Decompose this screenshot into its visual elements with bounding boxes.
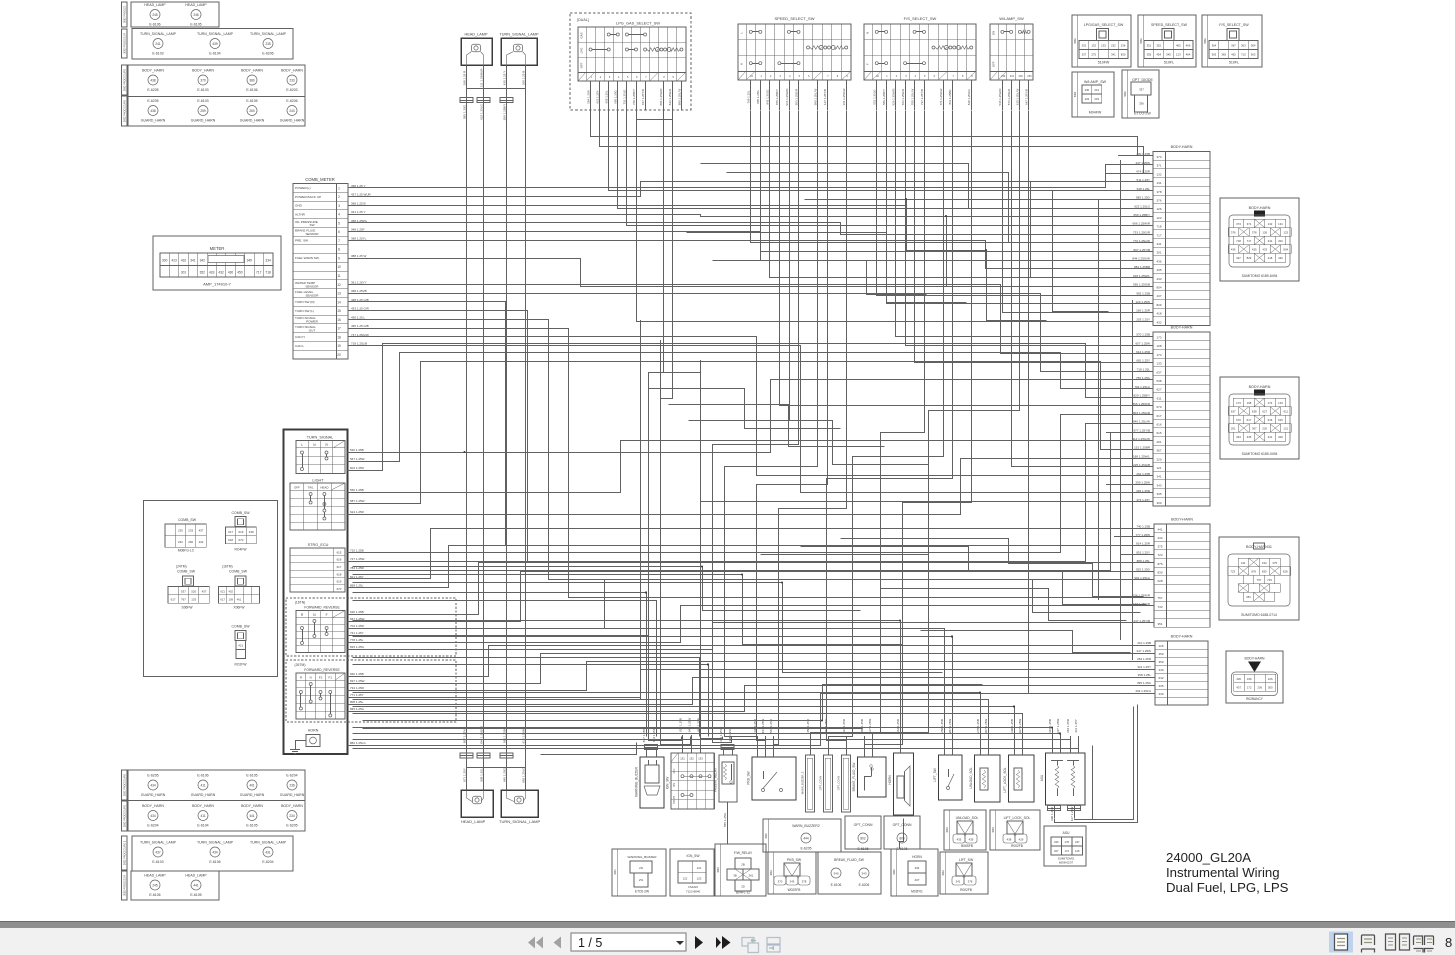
svg-text:658 1.25L: 658 1.25L: [605, 90, 609, 103]
wire ASU bottom stubs: [1054, 805, 1056, 818]
svg-text:378: 378: [802, 879, 807, 883]
wire COMB_METER pin17 to T3 row9: [349, 329, 1155, 598]
page layout icon 2 : continuous: [1362, 935, 1375, 953]
connector detail box METER (AMP_174910-7): [153, 236, 281, 290]
svg-text:437: 437: [915, 878, 920, 882]
svg-text:BODY-HARN: BODY-HARN: [1171, 326, 1193, 330]
svg-text:E-6205: E-6205: [286, 824, 297, 828]
wire stair t3 2: [801, 547, 1147, 605]
svg-text:E-6205: E-6205: [147, 99, 158, 103]
svg-text:CAN H: CAN H: [295, 335, 305, 339]
svg-text:510FL: 510FL: [1164, 61, 1174, 65]
ground symbol COMB_SW: [290, 749, 300, 751]
svg-text:ALTNR: ALTNR: [295, 212, 306, 216]
svg-text:696 1.25W/R: 696 1.25W/R: [1132, 222, 1150, 226]
wire LPG col to T1 row7: [618, 111, 1154, 209]
svg-text:W/LAMP_SW: W/LAMP_SW: [1084, 80, 1107, 84]
svg-text:(24TM): (24TM): [176, 565, 187, 569]
svg-text:433 1.25 G/R: 433 1.25 G/R: [351, 307, 370, 311]
svg-text:230: 230: [1001, 75, 1006, 78]
svg-text:B04FL-12: B04FL-12: [736, 891, 750, 895]
svg-text:132: 132: [1091, 44, 1096, 48]
svg-text:E-6106: E-6106: [831, 883, 842, 887]
wire 16TN row5 to T3: [348, 606, 1155, 643]
svg-text:TURN_SIGNAL_LAMP: TURN_SIGNAL_LAMP: [250, 841, 287, 845]
svg-text:343: 343: [1156, 483, 1161, 487]
svg-text:437: 437: [155, 850, 161, 854]
svg-text:433: 433: [209, 271, 215, 275]
wire COMB_METER pin12 to T2 row3: [349, 285, 1154, 354]
svg-text:HEAD_LAMP: HEAD_LAMP: [185, 874, 207, 878]
svg-text:233: 233: [1027, 75, 1032, 78]
svg-text:663 1.25G/R: 663 1.25G/R: [901, 89, 905, 105]
wire lamp vertical 1: [466, 65, 468, 790]
wire SPEED_SELECT_SW pin 5: [789, 80, 791, 110]
connector box TURN_SIGNAL_LAMP row (top-left): [132, 29, 293, 60]
wire 26TM row1 to T4: [348, 646, 1156, 677]
svg-text:174: 174: [1156, 353, 1161, 357]
svg-text:BODY_HARN: BODY_HARN: [192, 804, 214, 808]
detail box ASU (SUMITOMO): [1044, 826, 1086, 866]
svg-text:367: 367: [1252, 427, 1257, 431]
svg-text:955 1.25G/B: 955 1.25G/B: [1133, 283, 1150, 287]
svg-text:622 1.25LG: 622 1.25LG: [479, 103, 483, 119]
wire 16TN row1 to T3: [348, 563, 1155, 615]
svg-text:2%: 2%: [639, 878, 644, 882]
svg-text:234: 234: [289, 814, 295, 818]
wire bus y727.5 to bottom component x1052: [353, 728, 1053, 737]
svg-text:3082 PROCED: 3082 PROCED: [124, 6, 127, 23]
svg-text:624 1.25R: 624 1.25R: [350, 510, 365, 514]
svg-text:BODY-HARN: BODY-HARN: [1249, 206, 1271, 210]
wire PASS/W_RELAY pins: [723, 749, 725, 755]
svg-text:435: 435: [1156, 268, 1161, 272]
connector grid box BODY-HARN C3 (SUMITOMO 6188-0714): [1219, 537, 1299, 620]
detail box IGN_SW (bottom row): [670, 849, 714, 896]
svg-text:BREAK_FLUID_SW: BREAK_FLUID_SW: [834, 858, 865, 862]
svg-text:464: 464: [1186, 53, 1191, 57]
svg-text:376: 376: [1231, 230, 1236, 234]
svg-text:617: 617: [1247, 418, 1252, 422]
svg-text:E-6103: E-6103: [152, 860, 163, 864]
wire W/LAMP_SW pin 4: [1028, 80, 1030, 110]
svg-text:300: 300: [1278, 435, 1283, 439]
tab strip top-left 1: [122, 2, 128, 27]
wire lamp vertical 2: [483, 65, 485, 790]
svg-text:300: 300: [1156, 501, 1161, 505]
svg-text:5082: 5082: [1124, 91, 1127, 97]
svg-text:555 1.25G: 555 1.25G: [723, 812, 727, 827]
wire SPEED_SELECT_SW pin 3: [769, 80, 771, 110]
svg-text:3082 PROCEDURE: 3082 PROCEDURE: [124, 100, 127, 123]
svg-text:567 1.25W: 567 1.25W: [350, 457, 365, 461]
svg-text:126: 126: [1262, 230, 1267, 234]
svg-text:418: 418: [1268, 256, 1273, 260]
svg-text:E-6205: E-6205: [147, 774, 158, 778]
svg-text:517 1.25W: 517 1.25W: [868, 719, 872, 734]
svg-text:510FL: 510FL: [1229, 61, 1239, 65]
wire stair lower 4: [363, 685, 983, 721]
svg-text:433: 433: [1156, 277, 1161, 281]
svg-text:YAZAKI: YAZAKI: [688, 885, 699, 889]
wire COMB_METER pin16 to T3 row7: [349, 320, 1155, 580]
svg-text:126: 126: [1156, 207, 1161, 211]
svg-text:454: 454: [1156, 53, 1161, 57]
svg-text:UNLOAD_SOL: UNLOAD_SOL: [969, 767, 973, 789]
wire 26TM row3 to T4: [348, 662, 1156, 691]
svg-text:337: 337: [1139, 88, 1144, 92]
svg-text:BODY-HARN31: BODY-HARN31: [1246, 545, 1272, 549]
svg-text:733: 733: [1267, 578, 1272, 582]
svg-text:660 1.25B: 660 1.25B: [350, 672, 364, 676]
svg-text:COMB_METER: COMB_METER: [305, 177, 335, 182]
svg-text:172: 172: [1064, 849, 1069, 853]
svg-text:ASU: ASU: [1063, 831, 1071, 835]
wire SPEED col4 to T2 row9: [780, 111, 1154, 406]
detail box BREAK_FLUID_SW: [818, 852, 881, 894]
pdf viewer toolbar: [0, 928, 1455, 955]
wire COMB_METER pin1 to BODY-HARN T1 row2: [349, 165, 1154, 188]
svg-text:10: 10: [337, 265, 341, 269]
connector grid box BODY-HARN C1 (SUMITOMO 6189-6494): [1220, 198, 1299, 281]
svg-text:8: 8: [338, 248, 340, 252]
svg-text:F/W_RELAY: F/W_RELAY: [734, 851, 753, 855]
wire 26TM row6 to T4: [348, 686, 1156, 712]
svg-text:(26TM): (26TM): [295, 663, 306, 667]
svg-text:432: 432: [218, 271, 224, 275]
svg-text:732 1.25LG: 732 1.25LG: [623, 89, 627, 105]
svg-text:245: 245: [152, 883, 158, 887]
svg-text:723: 723: [1230, 569, 1235, 573]
svg-text:430: 430: [1236, 677, 1241, 681]
svg-text:COMB_SW: COMB_SW: [177, 570, 196, 574]
wire LPG col6-col9 jog: [637, 111, 673, 120]
wire 16TN row3 to T3: [348, 580, 1155, 629]
svg-text:E-6106: E-6106: [209, 860, 220, 864]
svg-text:6: 6: [338, 230, 340, 234]
svg-text:804: 804: [1156, 286, 1161, 290]
svg-text:GUARD_HARN: GUARD_HARN: [280, 119, 305, 123]
svg-text:3083: 3083: [770, 870, 773, 876]
svg-text:3082 PROCEDURE: 3082 PROCEDURE: [124, 69, 127, 92]
svg-text:E-6205: E-6205: [147, 88, 158, 92]
svg-text:HEAD_LAMP: HEAD_LAMP: [185, 3, 207, 7]
svg-text:133: 133: [698, 757, 703, 761]
wire W/LAMP_SW pin 2: [1011, 80, 1013, 110]
component narrow connector OPT_CONN 2: [824, 755, 833, 812]
svg-text:F/S_SELECT_SW: F/S_SELECT_SW: [1219, 23, 1249, 27]
page number input box: [571, 933, 686, 951]
svg-text:373: 373: [1156, 155, 1161, 159]
svg-text:Dual Fuel, LPG, LPS: Dual Fuel, LPG, LPS: [1166, 880, 1289, 895]
svg-text:585 1.25G: 585 1.25G: [462, 104, 466, 119]
svg-text:398 1.25 R: 398 1.25 R: [462, 70, 466, 86]
svg-text:123: 123: [1156, 216, 1161, 220]
svg-text:COMB_SW: COMB_SW: [231, 625, 250, 629]
svg-text:982 1.25LG: 982 1.25LG: [521, 766, 525, 782]
svg-text:299 1.25W: 299 1.25W: [1135, 480, 1150, 484]
wire COMB_METER pin14 to T3 row3: [349, 302, 1155, 546]
svg-text:CAN L: CAN L: [295, 344, 304, 348]
svg-text:375: 375: [1272, 561, 1277, 565]
wire UNLOAD_SOL pins: [980, 736, 982, 755]
wire LPG_GAS_SELECT_SW pin 7: [663, 81, 665, 110]
svg-text:TURN_SIGNAL_LAMP: TURN_SIGNAL_LAMP: [140, 841, 177, 845]
svg-text:SPEED_SELECT_SW: SPEED_SELECT_SW: [1151, 23, 1188, 27]
nav next-page button: [695, 936, 703, 949]
svg-text:123: 123: [1176, 53, 1181, 57]
svg-text:3083: 3083: [946, 827, 949, 833]
wire F/S_SELECT_SW pin 3: [895, 80, 897, 110]
svg-text:E-6104: E-6104: [197, 824, 208, 828]
svg-text:341: 341: [1268, 239, 1273, 243]
tab strip bottom-left 3: [122, 836, 128, 870]
wire stair t3 5: [921, 631, 1131, 653]
window icon 1 (disabled): [742, 938, 759, 953]
svg-text:734 1.25R: 734 1.25R: [350, 686, 365, 690]
svg-text:908 1.25L: 908 1.25L: [479, 768, 483, 782]
svg-text:804: 804: [1283, 248, 1288, 252]
svg-text:619: 619: [337, 580, 342, 584]
nav last-page button: [716, 937, 721, 948]
svg-text:5082: 5082: [1204, 38, 1207, 44]
svg-text:231: 231: [1010, 75, 1015, 78]
svg-text:R02BANCY: R02BANCY: [1246, 697, 1264, 701]
svg-text:E-6106: E-6106: [197, 774, 208, 778]
svg-text:SENSOR: SENSOR: [305, 232, 319, 236]
svg-text:240: 240: [1158, 668, 1163, 672]
svg-text:670: 670: [337, 587, 342, 591]
wire LPG_GAS_SELECT_SW pin 3: [608, 81, 610, 110]
svg-text:259: 259: [200, 109, 206, 113]
connector box GUARD_HARN / BODY_HARN (bottom-left): [128, 770, 305, 831]
svg-text:434: 434: [150, 814, 156, 818]
wire F/S_SELECT_SW pin 2: [886, 80, 888, 110]
wire COMB_METER pin13 to T2 row5: [349, 294, 1154, 372]
wire SPEED col to T1 row11: [751, 111, 1154, 243]
wire stair lower 5: [363, 728, 863, 730]
svg-text:621: 621: [220, 589, 225, 593]
svg-text:880 1.25L/W: 880 1.25L/W: [677, 89, 681, 106]
svg-text:ASU: ASU: [1040, 774, 1044, 781]
wire COMB_METER pin9 to BODY-HARN T1 row16: [349, 259, 1154, 287]
svg-text:M02F01: M02F01: [911, 890, 923, 894]
wire top col x827.2 to bottom component x765.5: [757, 111, 828, 741]
svg-text:232: 232: [1111, 44, 1116, 48]
svg-text:432 1.25LG: 432 1.25LG: [1135, 689, 1151, 693]
svg-text:GUARD_HARN: GUARD_HARN: [240, 119, 265, 123]
svg-text:604 1.25R: 604 1.25R: [350, 466, 365, 470]
svg-text:GUARD_HARN: GUARD_HARN: [141, 119, 166, 123]
wire top col x924.0 to bottom component x810.5: [811, 111, 925, 737]
wire ASU pins: [1052, 736, 1054, 753]
svg-text:524 1.25R: 524 1.25R: [842, 718, 846, 733]
svg-text:E-6103: E-6103: [197, 99, 208, 103]
wire F/S col to T1 row17: [877, 111, 1154, 296]
svg-text:307 1.25W: 307 1.25W: [984, 719, 988, 734]
svg-text:618: 618: [228, 538, 233, 542]
svg-text:917 1.25Y/B: 917 1.25Y/B: [641, 89, 645, 105]
svg-text:290 1.25B: 290 1.25B: [1010, 719, 1014, 733]
svg-text:SUMITOMO 6188-0714: SUMITOMO 6188-0714: [1241, 613, 1277, 617]
wire top col x846.2 to bottom component x773.5: [774, 111, 847, 745]
svg-text:341: 341: [1156, 242, 1161, 246]
svg-text:992 1.25B: 992 1.25B: [1136, 291, 1150, 295]
svg-text:236: 236: [1121, 44, 1126, 48]
svg-text:564 1.25R: 564 1.25R: [896, 718, 900, 733]
svg-text:365: 365: [1221, 53, 1226, 57]
wire stair t3 4: [881, 589, 1127, 621]
svg-text:POWER(+): POWER(+): [295, 186, 311, 190]
svg-text:POWER: POWER: [306, 320, 318, 324]
svg-text:RO4FW: RO4FW: [235, 548, 248, 552]
svg-text:275: 275: [1091, 53, 1096, 57]
wire bus y713.5 to bottom component x1022: [353, 714, 1023, 737]
svg-text:617: 617: [228, 530, 233, 534]
svg-text:432: 432: [181, 259, 187, 263]
svg-text:F1: F1: [329, 675, 333, 679]
svg-text:345: 345: [1166, 53, 1171, 57]
wire stair lower 3: [353, 583, 943, 673]
svg-text:250 1.25B: 250 1.25B: [940, 719, 944, 733]
connector detail box F/S_SELECT_SW 510FL: [1202, 15, 1262, 67]
svg-text:462: 462: [1231, 53, 1236, 57]
svg-text:343: 343: [1236, 435, 1241, 439]
svg-text:341: 341: [956, 879, 961, 883]
svg-text:327: 327: [1054, 849, 1059, 853]
svg-text:133: 133: [1101, 44, 1106, 48]
svg-text:432: 432: [1156, 320, 1161, 324]
page layout icon 3 : dual page: [1386, 934, 1410, 950]
svg-text:618: 618: [337, 572, 342, 576]
svg-text:E-6204: E-6204: [286, 774, 297, 778]
svg-text:940 1.25L/W: 940 1.25L/W: [1133, 420, 1150, 424]
svg-text:BODY-HARN: BODY-HARN: [1171, 635, 1193, 639]
svg-text:617: 617: [171, 598, 176, 602]
svg-text:164 1.25G/W: 164 1.25G/W: [842, 88, 846, 105]
svg-text:830: 830: [1157, 570, 1162, 574]
svg-text:450 1.25B: 450 1.25B: [806, 719, 810, 733]
detail box WARNING_BUZZER (bottom row): [612, 849, 666, 896]
wire COMB_METER CAN to T2 row17: [349, 337, 1154, 476]
wire bus y620.5 to bottom component x900: [353, 621, 901, 737]
svg-text:287 1.25W: 287 1.25W: [948, 719, 952, 734]
svg-text:829: 829: [1247, 256, 1252, 260]
svg-text:2D: 2D: [741, 885, 745, 889]
wire SPEED_SELECT_SW pin 2: [760, 80, 762, 110]
svg-text:F/S_SELECT_SW: F/S_SELECT_SW: [904, 16, 937, 21]
wire top col x1019.9 to bottom component x872.5: [873, 111, 1020, 737]
wire stair t3 1: [841, 539, 1144, 597]
tab strip bottom-left 2: [122, 801, 128, 831]
wire F/S col to T2 row4: [915, 111, 1154, 363]
svg-text:361 1.25YY: 361 1.25YY: [351, 280, 367, 284]
detail box LIFT_SW (bottom row): [940, 852, 988, 894]
wire TURN_SIGNAL row3 to T2 row8: [348, 344, 1154, 471]
svg-text:132: 132: [1268, 222, 1273, 226]
svg-text:232: 232: [178, 540, 183, 544]
svg-text:3083: 3083: [942, 870, 945, 876]
connector box BODY_HARN / GUARD_HARN (top-left): [128, 65, 305, 126]
svg-text:439: 439: [969, 837, 974, 841]
svg-text:757: 757: [1257, 578, 1262, 582]
svg-text:421: 421: [238, 644, 243, 648]
svg-text:704 1.25R: 704 1.25R: [350, 624, 365, 628]
svg-text:TURN_SIGNAL_LAMP: TURN_SIGNAL_LAMP: [250, 32, 287, 36]
svg-text:395 1.25G: 395 1.25G: [1137, 681, 1152, 685]
svg-text:589 1.25B/Y: 589 1.25B/Y: [882, 89, 886, 105]
connector detail box OPT_DIODE ETCO-2W: [1122, 70, 1159, 118]
svg-text:121: 121: [1283, 427, 1288, 431]
svg-text:5: 5: [338, 221, 340, 225]
svg-text:17: 17: [337, 327, 341, 331]
svg-text:20: 20: [337, 353, 341, 357]
svg-text:OPT_CONN: OPT_CONN: [837, 776, 841, 791]
svg-text:335: 335: [1247, 435, 1252, 439]
wire TURN_SIGNAL row1 stub: [348, 452, 465, 454]
svg-text:844 1.25G/W: 844 1.25G/W: [1132, 256, 1150, 260]
wire SPEED_SELECT_SW pin 8: [827, 80, 829, 110]
connector detail box W/LAMP_SW M04FW: [1072, 72, 1114, 117]
svg-text:6098-0237: 6098-0237: [1059, 861, 1074, 865]
svg-text:GUARD_HARN: GUARD_HARN: [141, 793, 166, 797]
svg-text:437: 437: [199, 529, 204, 533]
wire LIFT_LOCK_SOL pins: [1014, 736, 1016, 755]
svg-text:121: 121: [1156, 466, 1161, 470]
svg-text:435 1.25 G/B: 435 1.25 G/B: [351, 324, 369, 328]
connector bar lamp top 3: [500, 98, 513, 103]
wire bus y657.5 to bottom component x699: [353, 658, 700, 737]
svg-text:717: 717: [256, 271, 262, 275]
svg-text:E-6105: E-6105: [190, 893, 201, 897]
wire COMB_METER pin4 to BODY-HARN T1 row8: [349, 215, 1154, 217]
svg-text:851 1.25Y: 851 1.25Y: [1136, 550, 1150, 554]
svg-text:11: 11: [337, 274, 341, 278]
svg-text:151 1.25BR: 151 1.25BR: [1134, 446, 1151, 450]
svg-text:122: 122: [683, 877, 688, 881]
wire COMB_METER pin5 to BODY-HARN T1 row10: [349, 223, 1154, 235]
svg-text:TAIL: TAIL: [308, 485, 314, 489]
svg-text:437 1.25W: 437 1.25W: [1135, 161, 1150, 165]
wire stair t3 3: [761, 555, 1141, 613]
svg-text:700 1.25L/W: 700 1.25L/W: [910, 89, 914, 106]
svg-text:301: 301: [1156, 251, 1161, 255]
svg-text:243: 243: [289, 109, 295, 113]
wire COMB_METER pin3 to BODY-HARN T1 row6: [349, 200, 1154, 206]
svg-text:771 1.25Y: 771 1.25Y: [350, 693, 364, 697]
svg-text:637: 637: [1156, 370, 1161, 374]
detail box LIFT_LOCK_SOL: [990, 810, 1040, 850]
svg-text:876: 876: [1251, 569, 1256, 573]
svg-text:437: 437: [1236, 256, 1241, 260]
svg-text:439: 439: [212, 42, 218, 46]
svg-text:628: 628: [1283, 569, 1288, 573]
svg-text:METER: METER: [210, 246, 225, 251]
svg-text:BODY-HARN: BODY-HARN: [1244, 657, 1265, 661]
svg-text:LPG/GAS_SELECT_SW: LPG/GAS_SELECT_SW: [1084, 23, 1124, 27]
component narrow connector WARN_BUZZER_3 1: [806, 755, 815, 812]
svg-text:TURN_SIGNAL_LAMP: TURN_SIGNAL_LAMP: [140, 32, 177, 36]
wire 26TM row4 to T4: [348, 670, 1156, 698]
svg-text:[DUAL]: [DUAL]: [577, 18, 589, 22]
svg-text:173: 173: [1236, 401, 1241, 405]
svg-text:OFF: OFF: [294, 485, 300, 489]
svg-text:127 1.25Y/B: 127 1.25Y/B: [823, 89, 827, 105]
wire stair upper 2: [727, 173, 1069, 243]
svg-text:BODY-HARN: BODY-HARN: [1171, 518, 1193, 522]
wire F/S_SELECT_SW pin 1: [876, 80, 878, 110]
svg-text:466: 466: [1186, 44, 1191, 48]
